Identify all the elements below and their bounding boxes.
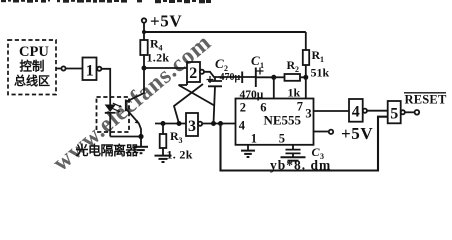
gate1 input bubble: [61, 66, 65, 70]
svg-text:3: 3: [305, 107, 311, 121]
wire pin3 to gate4: [314, 110, 350, 112]
label R2 designator: [287, 58, 300, 74]
wire CPU to gate1: [56, 68, 61, 70]
svg-text:2: 2: [189, 65, 197, 82]
gate3 output bubble: [198, 122, 202, 126]
svg-text:RESET: RESET: [405, 93, 447, 107]
label C2 designator: [215, 56, 228, 73]
node emitter/cathode: [138, 134, 143, 139]
svg-text:+5V: +5V: [150, 12, 182, 31]
svg-text:控制: 控制: [20, 59, 45, 74]
pin 3 label: [305, 107, 311, 121]
gate U3: [186, 113, 198, 136]
svg-text:1. 2k: 1. 2k: [167, 148, 193, 162]
wire gate2 out to C1: [204, 72, 255, 77]
pin 1 label: [251, 132, 257, 146]
svg-text:7: 7: [297, 100, 303, 114]
cross wire A gate2-in to pin4 net: [179, 82, 215, 106]
svg-text:3: 3: [188, 118, 196, 135]
phototransistor Q1: [125, 100, 127, 112]
wire gate4 to gate5: [367, 110, 388, 112]
wire C1 to node: [256, 76, 274, 78]
svg-text:2: 2: [295, 65, 299, 74]
wire rail to R4: [143, 32, 145, 40]
label R4 designator: [150, 37, 163, 53]
node R1/R2/pin7: [303, 75, 308, 80]
gate1 output bubble: [97, 67, 101, 71]
label NE555: [264, 113, 302, 128]
wire pin6 drop: [273, 77, 275, 98]
svg-text:3: 3: [179, 136, 183, 145]
plus mark C2: [207, 76, 214, 83]
svg-text:4: 4: [352, 104, 360, 121]
gate U5: [388, 101, 401, 123]
capacitor C3: [292, 145, 294, 150]
resistor R1: [303, 50, 309, 65]
wire R4 to node: [143, 55, 145, 68]
CPU control bus box: [8, 40, 56, 95]
svg-text:1: 1: [251, 132, 257, 146]
wire node to R2: [274, 76, 285, 78]
optocoupler dashed box: [97, 97, 130, 132]
wire node to gate2 input: [144, 67, 187, 69]
wire bubble to gate1: [66, 68, 83, 70]
IC NE555: [236, 99, 314, 145]
svg-text:470μ: 470μ: [220, 72, 241, 83]
label R1 designator: [312, 48, 325, 64]
svg-text:5: 5: [390, 106, 398, 123]
resistor R2: [285, 74, 301, 81]
plus mark C1: [257, 68, 264, 75]
wire gate3 to pin4: [202, 123, 235, 125]
node C1/R2/pin6: [271, 75, 276, 80]
label R3 value 1.2k: [167, 148, 193, 162]
gate U2: [187, 62, 200, 82]
label R4 value 1.2k: [147, 51, 170, 65]
node C2 drop: [211, 121, 216, 126]
cross wire B gate2-out to gate3-in: [174, 84, 203, 124]
label optocoupler: [75, 143, 140, 158]
svg-text:2: 2: [240, 101, 246, 115]
label RESET with overline: [405, 93, 447, 107]
svg-text:1.2k: 1.2k: [147, 51, 170, 65]
label C2 value 470u: [220, 72, 241, 83]
wire gate1 to optocoupler LED: [102, 69, 111, 97]
top cut-off text fragments: [1, 0, 211, 3]
svg-text:C: C: [215, 56, 224, 71]
label R1 value 51k: [311, 66, 330, 80]
node R4/gate2/collector: [142, 66, 147, 71]
gate2 output bubble: [200, 70, 204, 74]
pin 5 label: [279, 132, 285, 146]
wire rail corner to R1: [305, 32, 307, 50]
pin 7 label: [297, 100, 303, 114]
label R3 designator: [170, 129, 183, 145]
wire +5V to rail: [143, 23, 145, 32]
svg-text:光电隔离器: 光电隔离器: [75, 143, 140, 158]
svg-text:NE555: NE555: [264, 113, 302, 128]
svg-text:1: 1: [260, 61, 264, 70]
wire node down to phototransistor collector: [126, 68, 144, 102]
light arrows: [112, 103, 121, 111]
svg-text:4: 4: [239, 119, 246, 133]
wire gate5 to RESET terminal: [405, 111, 415, 113]
gate3 input wire: [155, 123, 186, 125]
LED D1: [109, 97, 111, 105]
ground opto: [140, 137, 142, 147]
svg-text:1k: 1k: [288, 86, 301, 100]
+5V rail wire: [144, 31, 306, 33]
svg-text:5: 5: [279, 132, 285, 146]
caption yb watermark text: [270, 158, 331, 173]
pin 4 label: [239, 119, 246, 133]
node R3 top: [161, 121, 166, 126]
node cross-B: [177, 121, 182, 126]
gate4 output bubble: [363, 109, 367, 113]
wire C2 to pin4 net: [214, 86, 216, 123]
wire pin8 to +5V: [314, 131, 329, 133]
watermark: [48, 30, 216, 177]
resistor R4: [140, 40, 147, 55]
capacitor C1: [242, 68, 256, 88]
emitter wire to node: [139, 123, 141, 136]
label C3: [312, 145, 325, 161]
gate U4: [349, 99, 363, 122]
CPU box text: [14, 44, 50, 88]
ground R3: [162, 148, 164, 155]
label C1 designator: [251, 53, 264, 70]
node feedback: [218, 121, 223, 126]
pin 2 label: [240, 101, 246, 115]
label R2 value 1k: [288, 86, 301, 100]
svg-text:C: C: [251, 53, 260, 68]
svg-text:1: 1: [86, 63, 94, 80]
svg-text:1: 1: [320, 55, 324, 64]
RESET terminal: [415, 110, 420, 115]
gate U1: [83, 58, 97, 81]
feedback wire bottom: [221, 117, 388, 171]
+5V terminal top: [142, 18, 146, 22]
gate5 output bubble: [401, 110, 405, 114]
ground pin1: [247, 145, 249, 151]
capacitor C2: [214, 77, 216, 81]
svg-text:+5V: +5V: [341, 124, 373, 143]
svg-text:CPU: CPU: [19, 44, 49, 60]
wire LED cathode to node: [110, 136, 141, 138]
node rail-R4: [142, 30, 146, 34]
resistor R3: [162, 124, 164, 135]
pin 6 label: [260, 101, 266, 115]
wire pin7 drop: [305, 77, 307, 98]
svg-text:总线区: 总线区: [14, 73, 50, 88]
ground C3: [281, 157, 306, 160]
wire R1 to node: [305, 65, 307, 77]
wire R2 to node: [300, 76, 306, 78]
label C1 value 470u: [240, 89, 264, 101]
svg-text:yb*8. dm: yb*8. dm: [270, 158, 331, 173]
svg-text:51k: 51k: [311, 66, 330, 80]
+5V terminal right: [329, 130, 333, 134]
